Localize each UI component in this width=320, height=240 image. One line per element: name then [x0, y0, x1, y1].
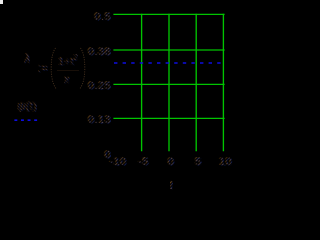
grid h-line y=0.13 — [113, 117, 224, 119]
formula big parens (SVG) — [0, 0, 246, 190]
y-axis label 0.25 — [80, 81, 111, 92]
x-axis title t — [170, 179, 174, 191]
x-axis label 0 — [156, 157, 187, 168]
formula denominator x — [64, 75, 70, 86]
blue dashed underline — [0, 117, 60, 125]
plot grid and marker — [0, 0, 246, 190]
x-axis label 10 — [210, 157, 241, 168]
expression psi(t) — [17, 100, 37, 112]
y-axis label 0.38 — [80, 47, 111, 58]
y-axis label 0.5 — [80, 12, 111, 23]
grid v-line x=5 — [195, 14, 197, 152]
grid v-line x=10 — [222, 14, 224, 152]
formula assignment := — [38, 62, 48, 74]
formula variable lambda — [24, 52, 30, 65]
grid h-line y=0.5 — [113, 13, 224, 15]
formula fraction bar (very dim) — [57, 70, 79, 71]
y-axis label 0 — [80, 150, 111, 161]
cursor square top-left — [0, 0, 3, 4]
formula numerator 1+t^2 — [58, 54, 78, 68]
grid h-line y=0.38 — [113, 49, 224, 51]
grid v-line x=0 — [168, 14, 170, 152]
x-axis label -5 — [128, 157, 159, 168]
x-axis label 5 — [183, 157, 214, 168]
x-axis label -10 — [103, 157, 134, 168]
grid v-line x=-5 — [141, 14, 143, 152]
blue dashed marker line at 1/pi — [114, 62, 223, 64]
grid h-line y=0.25 — [113, 83, 224, 85]
y-axis label 0.13 — [80, 115, 111, 126]
